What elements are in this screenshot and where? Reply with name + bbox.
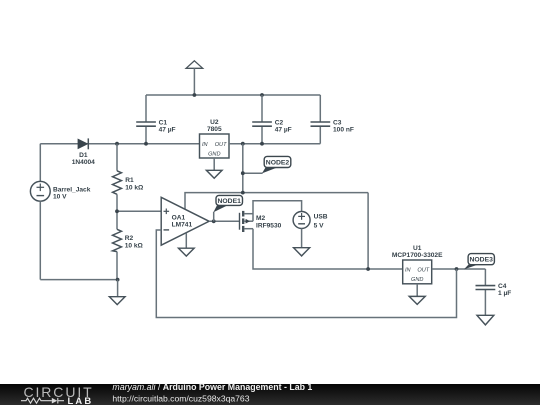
net flag NODE1 xyxy=(213,195,242,221)
svg-text:NODE1: NODE1 xyxy=(217,198,241,205)
svg-text:100 nF: 100 nF xyxy=(333,127,354,134)
node junction R1 top xyxy=(115,142,119,146)
wire V+ rail xyxy=(185,193,368,210)
svg-text:10 kΩ: 10 kΩ xyxy=(125,184,144,191)
resistor R2 xyxy=(113,211,144,279)
footer logo resistor-diode squiggle xyxy=(21,398,64,404)
svg-text:IN: IN xyxy=(202,142,209,148)
node junction U1 IN xyxy=(366,267,370,271)
svg-text:D1: D1 xyxy=(79,152,88,159)
svg-text:maryam.ali / Arduino Power Man: maryam.ali / Arduino Power Management - … xyxy=(112,382,312,392)
svg-text:NODE2: NODE2 xyxy=(266,159,290,166)
svg-text:1 µF: 1 µF xyxy=(498,290,511,297)
wire M2 drain to U1 IN xyxy=(253,229,403,269)
node junction VCC on top bus xyxy=(193,93,197,97)
svg-text:GND: GND xyxy=(208,151,220,157)
svg-text:C3: C3 xyxy=(333,119,342,126)
svg-text:GND: GND xyxy=(411,277,423,283)
svg-text:10 V: 10 V xyxy=(53,194,67,201)
diode D1 xyxy=(72,138,95,166)
resistor R1 xyxy=(113,144,145,212)
svg-text:47 µF: 47 µF xyxy=(275,127,292,134)
svg-text:http://circuitlab.com/cuz598x3: http://circuitlab.com/cuz598x3qa763 xyxy=(112,393,249,403)
svg-text:7805: 7805 xyxy=(207,126,222,133)
svg-text:IRF9530: IRF9530 xyxy=(256,222,282,229)
regulator U2 7805 xyxy=(200,119,230,158)
svg-text:OUT: OUT xyxy=(417,267,429,273)
ground (below C4) xyxy=(477,315,494,325)
wire bottom-left ground rail xyxy=(40,279,117,281)
svg-text:C2: C2 xyxy=(275,119,284,126)
svg-text:47 µF: 47 µF xyxy=(159,127,176,134)
ground (U2 GND pin) xyxy=(206,158,222,178)
node junction V+ rail xyxy=(241,191,245,195)
net flag NODE3 xyxy=(464,254,495,270)
svg-text:5 V: 5 V xyxy=(314,223,324,230)
wire to op-amp noninverting input xyxy=(117,210,161,212)
capacitor C3 xyxy=(311,95,354,144)
footer bar xyxy=(0,384,540,405)
svg-text:U1: U1 xyxy=(413,245,422,252)
capacitor C4 xyxy=(476,269,512,315)
ground (U1 GND pin) xyxy=(409,284,425,305)
wire U2 output bus xyxy=(229,143,320,145)
capacitor C2 xyxy=(252,95,292,144)
capacitor C1 xyxy=(136,95,175,144)
svg-text:10 kΩ: 10 kΩ xyxy=(125,243,144,250)
wire right descender (5V rail to U1 IN) xyxy=(367,193,369,269)
wire top bus xyxy=(146,94,320,96)
ground (op-amp V- pin) xyxy=(179,233,195,256)
node junction C1 bottom xyxy=(144,142,148,146)
voltage source USB xyxy=(293,212,328,230)
svg-text:C4: C4 xyxy=(498,283,507,290)
op-amp OA1 LM741 xyxy=(161,197,209,245)
power flag VCC xyxy=(186,61,203,95)
wire op-amp output to gate xyxy=(209,220,239,222)
net flag NODE2 xyxy=(262,156,291,173)
node junction NODE2 tap xyxy=(241,171,245,175)
svg-text:1N4004: 1N4004 xyxy=(72,159,95,166)
svg-text:C1: C1 xyxy=(159,119,168,126)
svg-text:OA1: OA1 xyxy=(172,214,186,221)
svg-text:LAB: LAB xyxy=(68,395,94,405)
svg-text:R1: R1 xyxy=(125,177,134,184)
wire U1 output xyxy=(432,268,486,270)
node junction C2 top xyxy=(260,93,264,97)
svg-text:R2: R2 xyxy=(125,235,134,242)
svg-text:M2: M2 xyxy=(256,215,265,222)
regulator U1 MCP1700-3302E xyxy=(392,245,443,284)
svg-text:Barrel_Jack: Barrel_Jack xyxy=(53,186,91,193)
wire NODE2 stub xyxy=(243,172,263,174)
node junction R2 bottom xyxy=(116,278,120,282)
svg-text:IN: IN xyxy=(405,267,412,273)
svg-text:OUT: OUT xyxy=(215,142,227,148)
svg-text:U2: U2 xyxy=(210,119,219,126)
svg-text:LM741: LM741 xyxy=(172,222,193,229)
svg-text:NODE3: NODE3 xyxy=(469,257,493,264)
voltage source Barrel_Jack V1 xyxy=(30,144,90,280)
wire input bus (jack to U2 IN) xyxy=(40,143,199,145)
node junction NODE1 tap xyxy=(212,219,216,223)
transistor M2 IRF9530 xyxy=(240,211,282,232)
svg-text:MCP1700-3302E: MCP1700-3302E xyxy=(392,252,443,259)
node junction descender top xyxy=(241,142,245,146)
node junction R1/R2 divider xyxy=(115,209,119,213)
node junction C2 bottom xyxy=(260,142,264,146)
wire NODE2 descender xyxy=(242,144,244,193)
wire M2 source/bulk to USB xyxy=(253,201,302,222)
ground (USB source) xyxy=(294,228,310,256)
svg-text:USB: USB xyxy=(314,213,328,220)
node junction feedback tap xyxy=(455,267,459,271)
wire feedback loop xyxy=(156,230,456,318)
ground (below R2) xyxy=(109,280,125,305)
